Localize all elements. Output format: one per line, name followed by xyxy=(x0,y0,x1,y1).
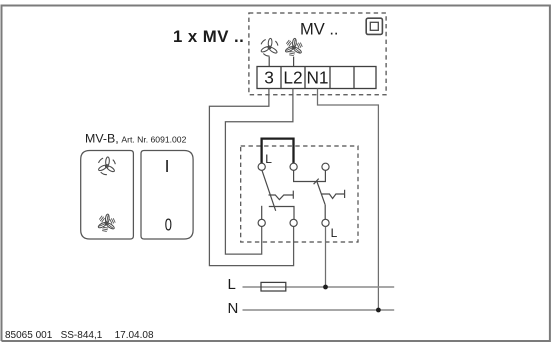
pole b top terminal xyxy=(290,163,297,170)
svg-text:SS-844,1: SS-844,1 xyxy=(61,330,103,341)
wire: supply line L xyxy=(243,286,395,288)
pole a lower contact stub xyxy=(261,206,263,219)
fuse F1 xyxy=(261,282,286,291)
wire: S2 lever to lower terminal xyxy=(324,205,326,220)
svg-text:I: I xyxy=(165,156,170,176)
switch S2 lower terminal xyxy=(322,219,329,226)
svg-text:MV-B,: MV-B, xyxy=(85,132,119,146)
pole a detent symbol xyxy=(269,191,294,200)
pole a lever xyxy=(262,170,276,210)
svg-text:Art. Nr. 6091.002: Art. Nr. 6091.002 xyxy=(121,134,186,144)
switch S2 lever xyxy=(317,182,325,205)
junction dot L line / S2 branch xyxy=(323,285,328,290)
pole b lower contact rail xyxy=(269,207,294,220)
svg-text:L2: L2 xyxy=(283,67,302,87)
pole b lower terminal xyxy=(290,219,297,226)
switch S2 detent symbol xyxy=(322,190,345,199)
wire: terminal L2 down, left and to lower contact of pole a xyxy=(225,89,293,255)
wire: pole b top terminal to switch S2 pivot xyxy=(294,170,326,181)
wire: S2 lower terminal down to L line xyxy=(325,227,327,287)
svg-text:L: L xyxy=(331,226,338,240)
switch S2 pivot tick xyxy=(314,179,319,185)
switch mechanism dashed enclosure xyxy=(241,146,358,242)
wire: terminal 3 down, left and to lower contact of pole b xyxy=(209,89,293,266)
svg-text:17.04.08: 17.04.08 xyxy=(115,330,154,341)
junction dot N line / N1 branch xyxy=(376,308,381,313)
fan motor M1 (speed 1, outline) xyxy=(260,38,278,56)
svg-text:0: 0 xyxy=(165,216,172,235)
thick bridge jumper between pole a and pole b top terminals xyxy=(262,139,294,164)
svg-text:N: N xyxy=(228,300,239,317)
svg-text:L: L xyxy=(265,152,272,166)
rocker fan icon bottom (hatched) xyxy=(98,214,116,232)
svg-text:1 x MV ..: 1 x MV .. xyxy=(173,27,244,46)
switch S2 top terminal xyxy=(322,163,329,170)
wire: fan M1 stem to terminal 3 xyxy=(268,57,270,67)
class II double-insulation icon xyxy=(366,18,382,34)
svg-text:MV ..: MV .. xyxy=(300,21,339,39)
rocker switch button left (fan symbols) xyxy=(81,151,134,240)
wire: fan M2 stem to terminal L2 xyxy=(293,57,295,67)
svg-text:3: 3 xyxy=(264,67,274,87)
rocker switch button right (I / 0) xyxy=(141,151,193,240)
terminal block X1 xyxy=(257,67,376,89)
fan unit dashed enclosure MV .. xyxy=(249,13,386,95)
pole a top terminal xyxy=(258,163,265,170)
rocker fan icon top (outline) xyxy=(98,157,116,175)
pole a lower terminal xyxy=(258,219,265,226)
wire: terminal N1 down, right and down to N line xyxy=(318,89,379,311)
wire: supply line N xyxy=(243,309,395,311)
svg-text:L: L xyxy=(228,276,236,293)
fan motor M2 (speed 2, hatched) xyxy=(285,38,303,56)
svg-text:N1: N1 xyxy=(306,67,328,87)
svg-text:85065 001: 85065 001 xyxy=(5,330,53,341)
